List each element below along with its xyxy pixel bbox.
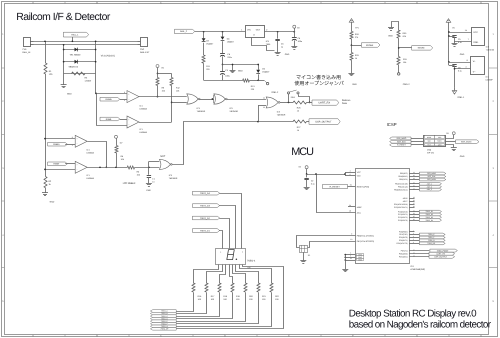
net flag UART_RX (312, 100, 339, 105)
resistor R8 10k (157, 74, 159, 78)
wire R12 to opamp2 output (171, 86, 173, 123)
svg-text:6: 6 (350, 173, 351, 176)
wire display pin to resistor R18 (220, 265, 226, 284)
MCU pin PB5(SCK) with net flag SER_MOSI (409, 179, 419, 181)
crystal X1 CSTCE16M (300, 246, 308, 253)
svg-text:7SEG_D1: 7SEG_D1 (425, 210, 433, 213)
svg-text:PB1(OC1A): PB1(OC1A) (398, 185, 408, 188)
resistor R20 100 (244, 283, 247, 292)
MCU pin PD3(INT1) with net flag 7SEG_G (409, 240, 419, 242)
wire opamp2 output (139, 122, 172, 124)
power block IC3 74HC02 (472, 28, 485, 46)
wire R21 to segment bus (177, 293, 259, 324)
wire R19 to segment bus (177, 293, 233, 319)
svg-text:AVcc: AVcc (357, 212, 361, 215)
svg-text:1k: 1k (297, 110, 299, 113)
wire opamp1 output to gate A (139, 96, 187, 98)
svg-text:AUX_2: AUX_2 (427, 185, 432, 188)
MCU pin PC4(ADC4/SDA) (409, 204, 415, 206)
svg-text:GND-2: GND-2 (271, 91, 279, 94)
svg-text:0.1u: 0.1u (458, 41, 462, 44)
svg-text:SER_MISO: SER_MISO (427, 172, 436, 175)
svg-text:GND: GND (473, 41, 478, 44)
resistor R21 100 (257, 283, 260, 292)
net flag 7SEG_D4 to display (192, 191, 219, 195)
MCU pin PC1(ADC1) with net flag 7SEG_D2 (409, 214, 419, 216)
op-amp IC1 comparator C (75, 135, 87, 147)
svg-text:7SEG_DP: 7SEG_DP (427, 242, 436, 245)
resistor R18 100 (218, 283, 221, 292)
svg-text:RAIL-EXT: RAIL-EXT (140, 51, 150, 54)
svg-text:MCU: MCU (291, 146, 314, 158)
net flag 7SEG_D segment bus (150, 317, 176, 320)
resistor R26 1k (293, 101, 307, 104)
ground at CN4 (446, 145, 454, 148)
net flag RXB8+ to opamp1 (100, 97, 120, 101)
svg-text:GND-1: GND-1 (457, 96, 465, 99)
diode D4 1N4007 (222, 32, 224, 37)
op-amp IC1 comparator B (127, 116, 139, 128)
op-amp IC1 comparator A (127, 91, 139, 103)
svg-text:RAIL_2: RAIL_2 (180, 30, 188, 33)
display D5 7SEG-4 (216, 249, 246, 265)
svg-text:7: 7 (468, 38, 469, 41)
diode TR1 SB020 (64, 49, 96, 51)
net flag PROBE (351, 45, 361, 47)
wire divider2 mid (398, 38, 400, 56)
net flag 7SEG_D2 to display (192, 216, 219, 220)
wire R16 to segment bus (177, 293, 194, 312)
svg-text:PB2(SS/OC1B): PB2(SS/OC1B) (395, 182, 408, 185)
net flag RAIL_1 (63, 32, 88, 37)
svg-text:1u: 1u (281, 46, 283, 49)
svg-text:DSP_OUTPUT: DSP_OUTPUT (434, 255, 448, 258)
svg-text:18: 18 (349, 210, 351, 213)
resistor R2 1k (44, 177, 47, 188)
svg-text:C2: C2 (311, 180, 313, 183)
svg-text:7SEG_D3: 7SEG_D3 (425, 216, 433, 219)
svg-text:PC1(ADC1): PC1(ADC1) (398, 213, 408, 216)
svg-text:SER_MISO: SER_MISO (397, 137, 407, 140)
net flag 7SEG_D3 to display (192, 204, 219, 208)
wire rail to opamp1 plus input (96, 93, 127, 95)
wire R20 to segment bus (177, 293, 246, 322)
resistor R17 100 (205, 283, 208, 292)
svg-text:PB3(MOSI/OC2): PB3(MOSI/OC2) (394, 188, 408, 191)
wire 7SEG_D1 to display (220, 231, 223, 249)
resistor R6 10k (115, 146, 118, 154)
svg-text:Railcom I/F & Detector: Railcom I/F & Detector (16, 12, 111, 23)
svg-text:VCC: VCC (357, 171, 362, 174)
diode D2 SB020 (64, 61, 96, 63)
capacitor C9 0.1u (448, 35, 450, 37)
svg-text:74E/NOR: 74E/NOR (277, 114, 286, 117)
svg-text:10k: 10k (176, 89, 179, 92)
capacitor C6 100u (294, 32, 296, 37)
svg-text:15k: 15k (403, 61, 406, 64)
wire bottom rail with resistor R13 220 (204, 80, 243, 82)
svg-text:TR1 SB020: TR1 SB020 (70, 53, 82, 56)
MCU pin ADC6 (409, 198, 415, 200)
net flag RXB8- to opamp2 (100, 117, 120, 121)
svg-text:PD6(AIN0): PD6(AIN0) (399, 252, 408, 255)
svg-text:マイコン書き込み用: マイコン書き込み用 (296, 74, 341, 81)
MCU pin PC5(ADC5/SCL) (409, 207, 415, 209)
capacitor C8 0.1u (448, 62, 450, 65)
ground under MCU (345, 255, 347, 269)
svg-text:7SEG_D4: 7SEG_D4 (200, 192, 211, 195)
svg-text:4: 4 (350, 170, 351, 173)
wire chain left vertical (63, 45, 65, 73)
svg-text:GND: GND (67, 93, 72, 96)
svg-text:R_RESET: R_RESET (397, 144, 407, 147)
net flag RXB8- to opamp4 (48, 162, 68, 166)
MCU pin PC2(ADC2) with net flag 7SEG_D3 (409, 217, 419, 219)
wire opamp3 output loop (88, 142, 107, 168)
svg-text:ATMEGA8(DIP): ATMEGA8(DIP) (410, 268, 425, 271)
wire R11 to bottom rail (203, 63, 205, 80)
wire rectifier input rail (195, 31, 246, 33)
net flag RAIL_2 to rectifier (175, 29, 195, 33)
svg-text:PD7(AIN1): PD7(AIN1) (399, 255, 408, 258)
svg-text:LM358A: LM358A (140, 107, 148, 110)
svg-text:Railcom: Railcom (342, 99, 350, 102)
svg-text:RXB8-: RXB8- (106, 118, 112, 121)
MCU VCC pins (345, 172, 347, 175)
svg-text:PD0(RXD): PD0(RXD) (399, 230, 408, 233)
resistor R30 82k (397, 30, 400, 38)
power rail symbol top right (446, 19, 451, 23)
ground under C9 (454, 41, 456, 44)
svg-text:LM358A: LM358A (87, 151, 95, 154)
net flag SER_MISO to ICSP (390, 137, 411, 140)
MCU pin PB0(ICP) with net flag SER_MISO (409, 173, 419, 175)
wire display pin to resistor R21 (236, 265, 259, 284)
power symbol 5V at CN4 (446, 135, 454, 139)
svg-text:1N4007: 1N4007 (206, 42, 214, 45)
resistor R19 100 (231, 283, 234, 292)
svg-text:7SEG_D4: 7SEG_D4 (425, 219, 433, 222)
resistor R1 120 (45, 41, 47, 63)
MCU pin PD6(AIN0) with net flag UART_RX (409, 253, 429, 255)
svg-text:74E/NOR: 74E/NOR (169, 177, 178, 180)
wire R18 to segment bus (177, 293, 220, 317)
svg-text:VCC: VCC (473, 31, 478, 34)
svg-text:GND: GND (285, 53, 290, 56)
wire mid rail (223, 64, 259, 66)
svg-text:ISP-CN: ISP-CN (427, 152, 434, 155)
MCU pin PB3(MOSI/OC2) with net flag AUX_3 (409, 189, 419, 191)
svg-text:PB5(SCK): PB5(SCK) (399, 178, 408, 181)
svg-text:PB6(XTAL1/TOSC1): PB6(XTAL1/TOSC1) (357, 234, 375, 237)
wire jumper bypass (299, 95, 310, 103)
wire flag stem to rail (72, 37, 74, 41)
svg-text:PC3(ADC3): PC3(ADC3) (398, 219, 408, 222)
svg-text:0.1u: 0.1u (311, 183, 315, 186)
wire gate C output (280, 102, 293, 104)
connector CN4 ISP-CN (424, 136, 446, 147)
ground under C2 (304, 187, 310, 189)
svg-text:7SEG_G: 7SEG_G (428, 239, 435, 242)
capacitor C2 0.1u at MCU (306, 174, 308, 177)
resistor R16 100 (192, 283, 195, 292)
svg-text:SER_MOSI: SER_MOSI (427, 178, 436, 181)
svg-text:PC4(ADC4/SDA): PC4(ADC4/SDA) (394, 203, 408, 206)
svg-text:74E/NOR: 74E/NOR (229, 110, 238, 113)
svg-text:PD3(INT1): PD3(INT1) (399, 239, 408, 242)
svg-text:based on Nagoden's railcom det: based on Nagoden's railcom detector (349, 320, 492, 331)
gate A NOR IC3 (187, 94, 199, 104)
resistor R3 1.6/5W (64, 73, 96, 75)
op-amp IC1 comparator D (75, 161, 87, 173)
svg-text:1: 1 (241, 29, 242, 32)
svg-text:SENSE: SENSE (418, 47, 426, 50)
svg-text:PC5(ADC5/SCL): PC5(ADC5/SCL) (394, 206, 408, 209)
svg-text:1k: 1k (355, 57, 357, 60)
svg-text:ADC7: ADC7 (403, 200, 408, 203)
wire display pin to resistor R17 (207, 265, 223, 284)
net flag 7SEG_G segment bus (150, 325, 176, 328)
svg-text:10k: 10k (121, 158, 124, 161)
7-segment digit glyph (227, 250, 234, 260)
svg-text:RXB8-: RXB8- (53, 163, 59, 166)
svg-text:9: 9 (351, 233, 352, 236)
svg-text:12: 12 (263, 106, 265, 109)
svg-text:AREF: AREF (357, 206, 363, 209)
net flag 7SEG_D1 to display (192, 229, 219, 233)
diode D3 1N4007 (203, 32, 205, 38)
MCU pin PD0(RXD) (409, 231, 415, 233)
capacitor C4 220u (220, 53, 225, 55)
wire MCU VCC rail (307, 174, 345, 176)
svg-text:VIN: VIN (247, 29, 251, 32)
svg-text:RXB8+: RXB8+ (53, 143, 60, 146)
wires ICSP flags to CN4 (411, 138, 423, 140)
svg-text:GND: GND (388, 35, 393, 38)
wire to IC3 VCC pin 14 (448, 31, 450, 33)
wire divider2 top (392, 22, 399, 31)
test point TP1 rail reference (349, 19, 354, 23)
svg-text:Vf=0.2V[<1A]: Vf=0.2V[<1A] (101, 55, 115, 58)
wire 7SEG_D3 to display (220, 206, 236, 249)
svg-text:4: 4 (465, 66, 466, 69)
svg-text:LM358A: LM358A (87, 177, 95, 180)
svg-text:GND: GND (460, 155, 465, 158)
svg-text:27k: 27k (355, 36, 358, 39)
svg-text:PB4(MISO): PB4(MISO) (398, 175, 408, 178)
svg-text:UART_RX: UART_RX (318, 102, 330, 105)
ground stub on mid rail (232, 65, 234, 71)
net flag N_SENSE (399, 47, 412, 49)
svg-text:IC1: IC1 (486, 76, 489, 79)
resistor R29 1k (350, 53, 353, 61)
svg-text:VCC: VCC (357, 175, 362, 178)
svg-text:10: 10 (350, 238, 352, 241)
wire NOT output up to data line (172, 122, 294, 165)
wire gate B to gate C (226, 99, 266, 101)
svg-text:LPF 338kHz: LPF 338kHz (123, 182, 136, 185)
power symbol 5V bias (115, 135, 118, 138)
net flag R_RESET to ICSP (390, 143, 411, 146)
wire sense rail to opamp4 minus input (45, 169, 75, 171)
ground under C1 (146, 183, 152, 185)
wire divider1 mid (351, 39, 353, 53)
MCU GND pins (345, 254, 355, 256)
gate C NOR IC3 (266, 97, 278, 108)
MCU pin PD5(T1) with net flag 7SEG_POINT (409, 250, 429, 252)
svg-text:1.6/5W: 1.6/5W (85, 80, 92, 83)
svg-text:11: 11 (263, 96, 265, 99)
svg-text:IC3: IC3 (486, 45, 489, 48)
ground under C6 (291, 46, 297, 48)
voltage regulator IC5 7805 (246, 26, 265, 38)
net flag R_RESET at MCU (323, 185, 348, 189)
MCU pin ADC7 (409, 201, 415, 203)
svg-text:PROBE: PROBE (366, 44, 374, 47)
svg-text:PD2(INT0): PD2(INT0) (399, 236, 408, 239)
svg-text:PC0(ADC0): PC0(ADC0) (398, 210, 408, 213)
wire left sense rail down (45, 74, 47, 177)
ground under crystal (303, 252, 305, 260)
ground reference divider2 (388, 27, 394, 29)
net flag SER_MOSI from CN4 (446, 141, 456, 143)
power symbol 5V at MCU (305, 166, 308, 169)
svg-text:ADC6: ADC6 (403, 197, 408, 200)
wire R8/R12 top tie (158, 73, 172, 75)
svg-text:29: 29 (350, 183, 352, 186)
svg-text:SER_SCK: SER_SCK (397, 140, 407, 143)
net flag 7SEG_C segment bus (150, 315, 176, 318)
open terminal to GND-2 (258, 80, 264, 82)
MCU pin PD4(XCK/T0) with net flag 7SEG_DP (409, 243, 419, 245)
diode D6 1N4007 (258, 65, 260, 70)
svg-text:7SEG-4: 7SEG-4 (247, 260, 256, 263)
capacitor C5 1u (264, 31, 294, 33)
capacitor C3 100u (222, 65, 224, 72)
svg-text:R_RESET: R_RESET (330, 186, 341, 189)
resistor R27 1k (293, 120, 307, 123)
svg-text:7SEG_D1: 7SEG_D1 (200, 229, 211, 232)
svg-text:LM358P: LM358P (486, 79, 494, 82)
wire opamp4 output to LPF (87, 167, 127, 169)
wire to IC1 V+ pin 8 (448, 61, 450, 63)
svg-text:8: 8 (467, 59, 468, 62)
svg-text:82k: 82k (403, 35, 406, 38)
MCU pin PB1(OC1A) with net flag AUX_2 (409, 186, 419, 188)
svg-text:1n: 1n (152, 180, 154, 183)
svg-text:14: 14 (465, 29, 467, 32)
wire rail bottom (34, 44, 138, 46)
wire display pin to resistor R16 (194, 265, 219, 284)
wire R27 to DSP_OUTPUT flag (307, 121, 310, 123)
svg-text:SER_SCK: SER_SCK (428, 175, 437, 178)
svg-text:RAIL_IN: RAIL_IN (22, 51, 30, 54)
svg-text:GND: GND (238, 70, 243, 73)
svg-text:220u: 220u (227, 56, 231, 59)
svg-text:G: G (416, 1, 418, 4)
resistor R28 27k (350, 31, 353, 39)
wire rail to opamp2 minus input (96, 93, 98, 125)
net flag RXB8+ to opamp3 (48, 142, 68, 146)
power symbol 5V for R8/R12 (156, 65, 159, 68)
net flag 7SEG_A segment bus (150, 310, 176, 313)
svg-text:C8: C8 (458, 66, 460, 69)
net flag 7SEG_B segment bus (150, 312, 176, 315)
svg-text:100u: 100u (298, 40, 302, 43)
connector CN2 RAIL-EXT (141, 38, 148, 47)
ground under divider1 (351, 60, 353, 73)
svg-text:SB020 D2: SB020 D2 (69, 65, 79, 68)
svg-text:OUT: OUT (256, 29, 261, 32)
net flag 7SEG_E segment bus (150, 320, 176, 323)
capacitor C1 1n lowpass (148, 167, 150, 174)
wire R17 to segment bus (177, 293, 207, 314)
MCU pin PD2(INT0) with net flag 7SEG_F (409, 237, 419, 239)
connector CN1 RAIL_IN (24, 38, 31, 47)
svg-text:G: G (416, 334, 418, 337)
wire display pin to resistor R19 (230, 265, 233, 284)
MCU pin PC3(ADC3) with net flag 7SEG_D4 (409, 220, 419, 222)
resistor R12 10k (171, 74, 173, 78)
svg-text:7SEG_F: 7SEG_F (428, 236, 434, 239)
svg-text:7SEG_E: 7SEG_E (428, 233, 435, 236)
svg-text:AUX_3: AUX_3 (427, 188, 432, 191)
svg-text:1N4007: 1N4007 (227, 40, 235, 43)
svg-text:7SEG_D3: 7SEG_D3 (200, 204, 211, 207)
resistor R22 100 (270, 283, 273, 292)
svg-text:GND: GND (460, 53, 465, 56)
svg-text:74EHC02: 74EHC02 (486, 48, 494, 51)
wire gate A to gate B (199, 99, 214, 101)
svg-text:AUX_1: AUX_1 (427, 182, 432, 185)
wire regulator ground pin (252, 38, 275, 51)
svg-text:NOT: NOT (160, 155, 165, 158)
net flag DSP_OUTPUT (309, 119, 340, 125)
MCU pin PD1(TXD) with net flag 7SEG_E (409, 234, 419, 236)
svg-text:Desktop Station RC Display rev: Desktop Station RC Display rev.0 (349, 308, 477, 319)
wire lower branch to gate C (258, 106, 260, 122)
svg-text:PD1(TXD): PD1(TXD) (399, 233, 408, 236)
net flag SER_SCK to ICSP (390, 140, 411, 143)
wire sense rail to opamp3 plus input (45, 138, 75, 140)
svg-text:0.1u: 0.1u (458, 69, 462, 72)
gate B NOR IC3 (214, 94, 226, 104)
resistor R11 220 (202, 55, 205, 63)
svg-text:DSP_OUTPUT: DSP_OUTPUT (315, 121, 332, 124)
svg-text:100u: 100u (225, 74, 229, 77)
svg-text:1k: 1k (297, 129, 299, 132)
wire display pin 8 bus (177, 265, 284, 329)
svg-text:7SEG_D2: 7SEG_D2 (200, 217, 211, 220)
svg-text:Data: Data (342, 102, 348, 105)
wire R22 to segment bus (177, 293, 272, 327)
wire rail top (34, 41, 138, 43)
power block IC1 LM358 supply (471, 57, 485, 75)
wire R26 to UART_RX flag (307, 102, 313, 104)
svg-text:GND: GND (352, 83, 357, 86)
svg-text:RXB8+: RXB8+ (105, 98, 112, 101)
MCU pin PC0(ADC0) with net flag 7SEG_D1 (409, 211, 419, 213)
ground under R2 (45, 188, 47, 193)
svg-text:GND: GND (50, 200, 55, 203)
svg-text:74E/NOR: 74E/NOR (197, 110, 206, 113)
net flag 7SEG_F segment bus (150, 322, 176, 325)
svg-text:RESET#(PC6): RESET#(PC6) (357, 185, 370, 188)
wire display pin to resistor R22 (240, 265, 272, 284)
crystal X1 wires (297, 236, 356, 248)
resistor R5 10k lowpass (127, 166, 134, 169)
MCU IC4 ATMEGA8 body (356, 169, 410, 264)
